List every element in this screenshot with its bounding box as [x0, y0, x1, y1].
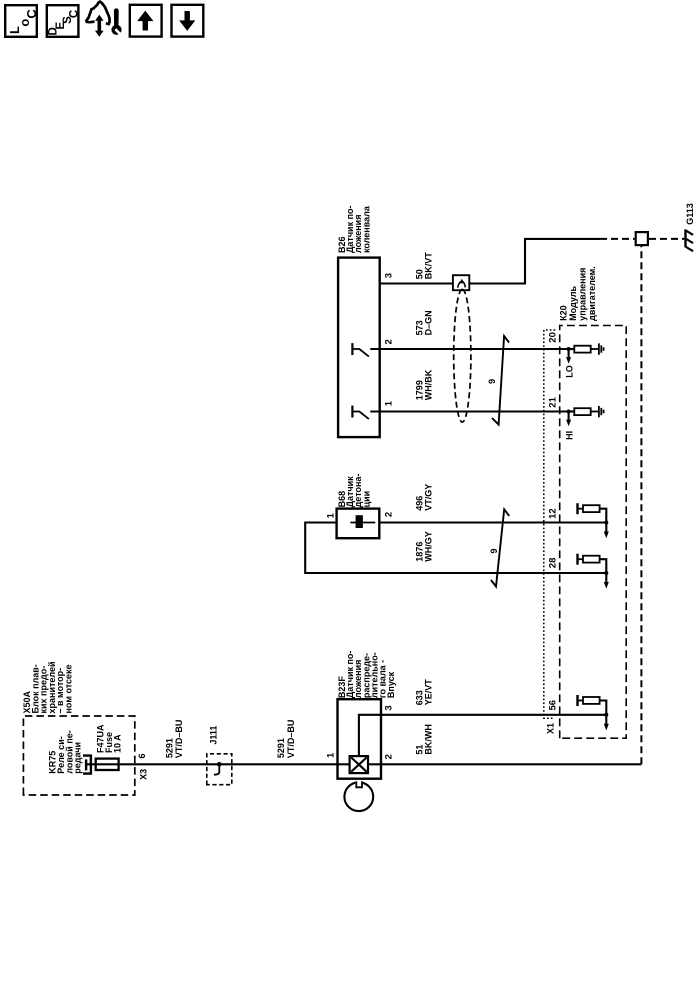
engine control module K20 dashed box	[560, 326, 627, 739]
camshaft position sensor B23F box	[338, 699, 382, 779]
label K20	[559, 266, 597, 321]
K20 pin 21 internal circuit (resistor to ground, arrow HI)	[564, 406, 603, 440]
label B23F	[337, 651, 396, 699]
pin 56 label	[547, 700, 558, 711]
svg-text:28: 28	[547, 558, 558, 569]
wire 633 YE/VT from B23F pin 3 to K20 pin 56	[379, 714, 606, 716]
button down-arrow box	[172, 5, 204, 37]
svg-text:управления: управления	[577, 268, 587, 321]
K20 pin 28 internal circuit (pull-up resistor, arrow)	[578, 554, 609, 589]
B23F sensor element (box with X)	[350, 756, 368, 773]
relay KR75 contact symbol	[83, 755, 91, 775]
connector X3 label	[138, 769, 148, 780]
label B68	[337, 474, 372, 508]
svg-text:Модуль: Модуль	[568, 285, 578, 320]
wire label 1876 WH/GY	[414, 531, 433, 562]
jump icon wrench	[114, 8, 119, 26]
K20 pin 12 internal circuit (pull-up resistor, arrow)	[578, 503, 609, 538]
svg-text:X3: X3	[138, 769, 148, 780]
connector X1 dotted boundary	[544, 330, 557, 718]
svg-text:12: 12	[547, 508, 558, 519]
wire 1876 WH/GY from B68 pin 1 to K20 pin 28	[305, 523, 606, 574]
svg-text:1: 1	[383, 400, 394, 406]
svg-text:3: 3	[383, 273, 394, 278]
wire label 1799 WH/BK	[414, 369, 433, 400]
B26 pin 2 label	[383, 339, 394, 344]
svg-text:2: 2	[383, 339, 394, 344]
svg-text:5291: 5291	[276, 738, 286, 758]
label J111	[209, 726, 219, 745]
ground junction square	[636, 232, 648, 245]
fuse block X50A dashed box	[23, 716, 134, 795]
label relay KR75	[48, 730, 83, 773]
wire label 633 YE/VT	[414, 679, 433, 706]
svg-text:ном отсеке: ном отсеке	[64, 664, 74, 713]
wire 5291 VT/D-BU from relay through fuse to B23F pin 1	[86, 763, 350, 765]
wire 496 VT/GY from B68 pin 2 to K20 pin 12	[379, 521, 606, 523]
svg-text:5291: 5291	[164, 738, 174, 758]
svg-text:HI: HI	[564, 431, 574, 440]
wire 50 BK/VT dashed run to junction and ground	[600, 238, 684, 240]
svg-text:C: C	[68, 10, 80, 18]
B26 sensor element at pin 2	[352, 343, 369, 357]
pin 21 label	[547, 396, 558, 407]
svg-text:1: 1	[326, 512, 337, 518]
wire 1799 WH/BK from B26 pin 1 to K20 pin 21	[370, 410, 568, 412]
harness marker 9 crossing wires 496/1876	[489, 509, 509, 586]
svg-text:56: 56	[547, 700, 558, 711]
button DESC box	[47, 5, 79, 37]
shield drain connector box on wire 50	[453, 275, 469, 290]
knock sensor B68 box	[337, 509, 380, 539]
B23F pin 3 label	[383, 705, 394, 710]
pin 6 label	[137, 753, 147, 758]
B26 pin 1 label	[383, 400, 394, 406]
button up-arrow box	[130, 5, 162, 37]
svg-text:VT/GY: VT/GY	[424, 484, 434, 511]
jump icon blob outline	[86, 2, 109, 25]
svg-text:9: 9	[487, 379, 497, 384]
svg-text:20: 20	[547, 332, 558, 343]
svg-text:2: 2	[383, 512, 394, 517]
ICONS_OVERLAY	[5, 2, 203, 37]
up arrow	[137, 11, 153, 31]
svg-text:редачи: редачи	[73, 742, 83, 774]
svg-text:коленвала: коленвала	[361, 205, 371, 253]
svg-text:BK/WH: BK/WH	[424, 724, 434, 755]
K20 pin 20 internal circuit (resistor to ground, arrow LO)	[564, 343, 603, 377]
svg-text:J111: J111	[209, 726, 219, 745]
B23F reluctor wheel circle	[344, 780, 373, 811]
fuse F47UA	[96, 759, 119, 770]
svg-text:WH/BK: WH/BK	[424, 369, 434, 400]
svg-text:VT/D–BU: VT/D–BU	[286, 720, 296, 759]
svg-text:Впуск: Впуск	[386, 671, 396, 698]
svg-text:3: 3	[383, 705, 394, 710]
splice J111 dashed box	[207, 754, 232, 785]
svg-text:YE/VT: YE/VT	[424, 679, 434, 706]
B26 pin 3 label	[383, 273, 394, 278]
svg-text:C: C	[24, 9, 39, 19]
label B26	[337, 205, 372, 253]
pin 28 label	[547, 558, 558, 569]
ground G113 symbol	[686, 229, 694, 251]
button LOC box	[5, 5, 37, 37]
svg-text:WH/GY: WH/GY	[424, 531, 434, 562]
svg-text:10 A: 10 A	[112, 734, 122, 753]
K20 pin 56 internal circuit (pull-up resistor, arrow)	[578, 695, 609, 731]
wire label 5291 VT/D-BU (upper)	[164, 720, 184, 759]
wire 51 BK/WH from B23F pin 2	[368, 763, 641, 765]
B26 sensor element at pin 1	[352, 406, 369, 420]
jump icon double arrow	[95, 15, 104, 37]
svg-text:D–GN: D–GN	[424, 310, 434, 335]
svg-text:o: o	[17, 19, 32, 27]
svg-text:6: 6	[137, 753, 147, 758]
svg-text:LO: LO	[564, 365, 574, 378]
wire 51 BK/WH dashed run to ground junction	[640, 245, 642, 764]
svg-text:2: 2	[383, 754, 394, 759]
B23F internal wire to pin 3	[359, 715, 381, 756]
wire label 50 BK/VT	[414, 252, 433, 280]
shield ellipse around wires 573 and 1799	[454, 289, 471, 422]
svg-text:1: 1	[326, 752, 337, 758]
wire label 573 D-GN	[414, 310, 433, 335]
B68 pin 1 label	[326, 512, 337, 518]
label X1	[546, 723, 556, 734]
down arrow	[179, 11, 195, 31]
wire label 51 BK/WH	[414, 724, 433, 755]
svg-text:X1: X1	[546, 723, 556, 734]
svg-text:двигателем.: двигателем.	[587, 266, 597, 321]
svg-text:G113: G113	[685, 203, 695, 225]
label fuse F47UA	[96, 724, 123, 753]
crankshaft position sensor B26 box	[338, 258, 380, 438]
wire label 5291 VT/D-BU (lower)	[276, 720, 296, 759]
svg-text:21: 21	[547, 396, 558, 407]
svg-text:9: 9	[489, 548, 499, 553]
wire 573 D-GN from B26 pin 2 to K20 pin 20	[370, 348, 568, 350]
B23F pin 2 label	[383, 754, 394, 759]
svg-text:ции: ции	[361, 491, 371, 508]
B68 pin 2 label	[383, 512, 394, 517]
harness marker 9 crossing wires 573/1799	[487, 336, 509, 425]
DIAGRAM (landscape coords, rotated -90)	[22, 203, 695, 811]
B23F pin 1 label	[326, 752, 337, 758]
B68 knock element symbol	[350, 515, 375, 528]
wire 50 BK/VT from B26 pin 3	[379, 239, 601, 284]
pin 20 label	[547, 332, 558, 343]
label X50A fuse block	[22, 661, 74, 713]
pin 12 label	[547, 508, 558, 519]
svg-text:BK/VT: BK/VT	[424, 252, 434, 280]
wire label 496 VT/GY	[414, 484, 433, 511]
splice J111 symbol	[214, 762, 222, 775]
label G113	[685, 203, 695, 225]
svg-text:VT/D–BU: VT/D–BU	[174, 720, 184, 759]
